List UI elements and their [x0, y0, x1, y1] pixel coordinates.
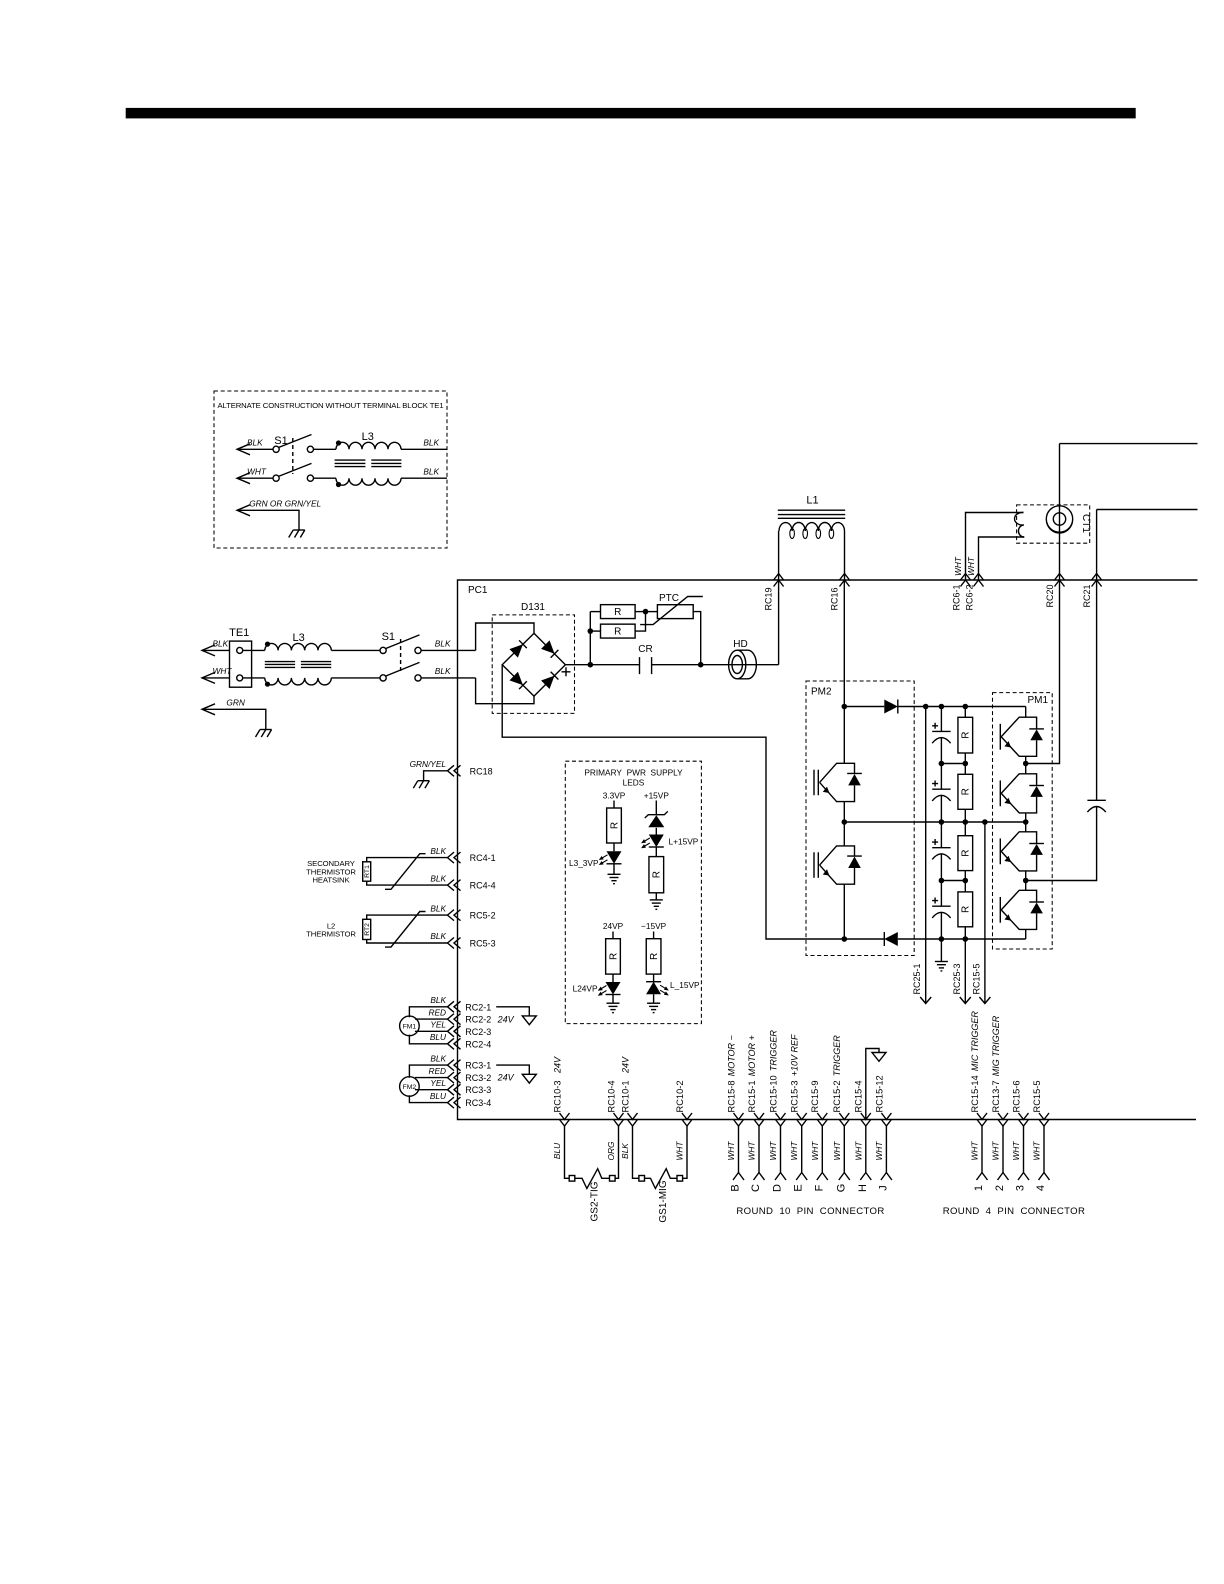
svg-text:ALTERNATE CONSTRUCTION WITHOUT: ALTERNATE CONSTRUCTION WITHOUT TERMINAL …	[217, 401, 443, 410]
LED L+15VP	[655, 828, 657, 835]
svg-text:RC2-2: RC2-2	[465, 1015, 491, 1025]
wire RC3-1	[409, 1065, 447, 1078]
zener diode (+15VP)	[655, 801, 657, 815]
pin J of 10-pin connector	[881, 1173, 892, 1181]
svg-text:WHT: WHT	[675, 1141, 685, 1161]
node PM2 bottom	[842, 936, 848, 942]
thermistor diagonal RT1	[385, 854, 426, 890]
svg-text:WHT: WHT	[966, 556, 976, 576]
connector pin RC10-4	[614, 1113, 624, 1126]
svg-text:YEL: YEL	[430, 1078, 446, 1088]
svg-text:WHT: WHT	[810, 1141, 820, 1161]
svg-text:L_15VP: L_15VP	[670, 980, 700, 990]
node PM1 Q3/Q4	[1023, 878, 1029, 884]
thermistor diagonal RT2	[385, 912, 426, 948]
resistor R lower	[590, 630, 600, 632]
node cap mid	[939, 819, 945, 825]
bridge rectifier D131 dashed box	[492, 615, 574, 714]
svg-text:RC4-4: RC4-4	[470, 881, 496, 891]
wire WHT secondary 1	[966, 513, 1024, 581]
wire L3 to S1 bottom	[331, 677, 380, 679]
svg-text:WHT: WHT	[874, 1141, 884, 1161]
LED L3_3VP	[607, 851, 622, 864]
svg-text:THERMISTOR: THERMISTOR	[306, 930, 356, 939]
svg-text:WHT: WHT	[768, 1141, 778, 1161]
svg-text:RC2-3: RC2-3	[465, 1027, 491, 1037]
second output line	[1097, 509, 1198, 511]
svg-text:RC3-2: RC3-2	[465, 1073, 491, 1083]
svg-text:GS1-MIG: GS1-MIG	[658, 1180, 669, 1222]
svg-text:R: R	[608, 953, 619, 960]
svg-text:RED: RED	[428, 1066, 446, 1076]
connector pin RC10-3	[560, 1113, 570, 1126]
capacitor C3	[940, 822, 942, 848]
pin E of 10-pin connector	[796, 1173, 807, 1181]
svg-text:R: R	[961, 732, 972, 739]
svg-text:R: R	[652, 871, 663, 878]
wire WHT to pin E	[801, 1126, 803, 1173]
svg-text:L3: L3	[362, 431, 374, 443]
svg-text:24V: 24V	[552, 1056, 562, 1074]
svg-text:RC15-4: RC15-4	[854, 1080, 864, 1112]
svg-text:TRIGGER: TRIGGER	[768, 1030, 778, 1072]
wire GRN with chassis ground	[202, 704, 215, 715]
svg-text:L1: L1	[806, 495, 818, 507]
earth ground (3.3VP)	[613, 864, 615, 875]
svg-text:RC3-3: RC3-3	[465, 1085, 491, 1095]
polarity dot L3 top	[265, 642, 270, 647]
svg-text:4: 4	[1035, 1185, 1047, 1191]
wire WHT secondary 2	[979, 537, 1025, 580]
wire WHT to pin D	[780, 1126, 782, 1173]
resistor R (-15VP)	[653, 932, 655, 939]
alternate construction dashed enclosure	[214, 391, 447, 548]
svg-text:MOTOR −: MOTOR −	[726, 1035, 736, 1076]
resistor bank R1	[964, 707, 966, 718]
TE1 terminal 2	[237, 675, 243, 681]
connector pin RC15-1	[754, 1113, 764, 1126]
fan motor FM1	[400, 1016, 420, 1036]
bridge diode lower-left	[509, 672, 522, 685]
24V supply triangle (FM1)	[496, 1007, 529, 1016]
wire WHT to pin F	[821, 1126, 823, 1173]
svg-text:WHT: WHT	[726, 1141, 736, 1161]
svg-text:LEDS: LEDS	[623, 778, 645, 788]
top output line	[1060, 443, 1198, 445]
svg-text:24V: 24V	[497, 1073, 515, 1083]
svg-text:24V: 24V	[620, 1056, 630, 1074]
svg-text:WHT: WHT	[213, 666, 233, 676]
switch GS2-TIG	[569, 1176, 575, 1182]
svg-text:RC25-1: RC25-1	[912, 963, 922, 994]
svg-text:WHT: WHT	[953, 556, 963, 576]
connector pin RC15-2	[839, 1113, 849, 1126]
svg-text:RC25-3: RC25-3	[952, 963, 962, 994]
svg-text:BLK: BLK	[423, 438, 439, 448]
24V supply triangle (FM2)	[496, 1065, 529, 1074]
svg-text:WHT: WHT	[747, 1141, 757, 1161]
node res mid	[963, 819, 969, 825]
svg-text:RC4-1: RC4-1	[470, 853, 496, 863]
wire RC2-4	[409, 1035, 447, 1044]
wire RC25-3	[964, 939, 966, 1004]
connector pin RC21	[1092, 574, 1102, 587]
bridge diamond	[502, 633, 565, 696]
svg-text:RC15-2: RC15-2	[832, 1080, 842, 1112]
svg-text:RC2-1: RC2-1	[465, 1002, 491, 1012]
connector pin RC15-8	[734, 1113, 744, 1126]
svg-text:RC5-3: RC5-3	[470, 939, 496, 949]
wire RC4-4	[367, 881, 448, 885]
svg-text:RC10-2: RC10-2	[675, 1080, 685, 1112]
svg-text:RC21: RC21	[1082, 584, 1092, 607]
svg-text:ORG: ORG	[606, 1141, 616, 1160]
PC1 board border	[458, 580, 1198, 1120]
svg-text:WHT: WHT	[247, 467, 267, 477]
svg-text:RC19: RC19	[764, 587, 774, 610]
svg-text:WHT: WHT	[789, 1141, 799, 1161]
svg-text:PM1: PM1	[1027, 695, 1048, 706]
wire RC3-4	[409, 1095, 447, 1102]
wire WHT to pin J	[885, 1126, 887, 1173]
svg-text:RC3-1: RC3-1	[465, 1061, 491, 1071]
svg-text:RC15-1: RC15-1	[747, 1080, 757, 1112]
node snubber right	[643, 609, 649, 615]
svg-text:D131: D131	[521, 602, 545, 613]
svg-text:HD: HD	[733, 639, 747, 650]
connector pin RC16	[840, 574, 850, 587]
svg-text:FM1: FM1	[403, 1023, 417, 1030]
IGBT PM1 Q3	[1025, 822, 1027, 832]
CT1 secondary winding	[1015, 512, 1025, 537]
node PM2 mid	[842, 819, 848, 825]
svg-text:BLK: BLK	[620, 1143, 630, 1159]
svg-text:R: R	[609, 822, 620, 829]
svg-text:WHT: WHT	[1011, 1141, 1021, 1161]
connector pin RC15-12	[881, 1113, 891, 1126]
wire L3 to S1 top	[331, 649, 380, 651]
svg-text:RT2: RT2	[364, 923, 371, 936]
svg-text:24VP: 24VP	[603, 921, 624, 931]
wire PM1 top lead	[1025, 707, 1027, 718]
svg-text:RC15-10: RC15-10	[768, 1075, 778, 1112]
svg-text:PC1: PC1	[468, 585, 488, 596]
wire RC5-3	[367, 940, 448, 944]
svg-text:L24VP: L24VP	[573, 984, 598, 994]
capacitor C4	[940, 881, 942, 907]
pin G of 10-pin connector	[839, 1173, 850, 1181]
svg-text:+10V REF: +10V REF	[790, 1034, 800, 1076]
mid rail PM2 to PM1	[844, 821, 1025, 823]
svg-text:WHT: WHT	[832, 1141, 842, 1161]
svg-text:24V: 24V	[497, 1014, 515, 1024]
chassis ground (alt)	[293, 529, 305, 531]
svg-text:RC5-2: RC5-2	[470, 911, 496, 921]
bridge diode upper-right	[541, 640, 554, 653]
svg-text:WHT: WHT	[991, 1141, 1001, 1161]
IGBT module PM1 dashed box	[993, 693, 1053, 949]
svg-text:R: R	[961, 850, 972, 857]
pin 2 of 4-pin connector	[998, 1173, 1009, 1181]
svg-text:RC15-8: RC15-8	[726, 1080, 736, 1112]
svg-text:MIC TRIGGER: MIC TRIGGER	[970, 1011, 980, 1071]
node cap n1	[939, 761, 945, 767]
pin H of 10-pin connector	[860, 1173, 871, 1181]
svg-text:RC15-5: RC15-5	[1032, 1080, 1042, 1112]
wire RC16 down to PM2	[843, 580, 845, 707]
wire WHT to pin B	[738, 1126, 740, 1173]
wire GRN OR GRN/YEL (alt)	[237, 505, 250, 516]
wire BLK output bottom (alt)	[401, 477, 447, 479]
connector pin RC15-4	[861, 1113, 871, 1126]
link n1	[941, 763, 965, 765]
earth ground (+15VP)	[650, 899, 663, 901]
LED L24VP	[606, 982, 621, 995]
svg-text:BLK: BLK	[213, 639, 229, 649]
node res bottom	[963, 936, 969, 942]
wire RC25-1	[925, 707, 927, 1004]
earth ground cap bank	[940, 939, 942, 962]
wire AC bottom into bridge	[476, 678, 534, 704]
svg-text:RC13-7: RC13-7	[991, 1080, 1001, 1112]
pin 4 of 4-pin connector	[1039, 1173, 1050, 1181]
svg-text:RC15-5: RC15-5	[971, 963, 981, 994]
svg-text:BLK: BLK	[423, 467, 439, 477]
svg-text:GRN: GRN	[226, 698, 244, 708]
switch GS1-MIG	[639, 1176, 645, 1182]
wire BLU to GS2-TIG	[565, 1126, 570, 1178]
earth ground (24VP)	[612, 995, 614, 1004]
svg-text:MOTOR +: MOTOR +	[747, 1035, 757, 1076]
svg-text:WHT: WHT	[1032, 1141, 1042, 1161]
svg-text:PRIMARY PWR SUPPLY: PRIMARY PWR SUPPLY	[584, 768, 683, 778]
TE1 terminal 1	[237, 647, 243, 653]
svg-text:C: C	[750, 1184, 762, 1192]
pin 3 of 4-pin connector	[1018, 1173, 1029, 1181]
plus sign at bridge output	[562, 667, 571, 676]
svg-text:BLU: BLU	[430, 1091, 447, 1101]
wire RC20 to PM1 node	[1026, 580, 1060, 764]
wire BLK input	[202, 645, 215, 656]
svg-text:HEATSINK: HEATSINK	[312, 876, 350, 885]
wire WHT to pin C	[758, 1126, 760, 1173]
wire node to HD and up to RC19	[701, 664, 779, 666]
svg-text:1: 1	[973, 1185, 985, 1191]
wire BLK output top (alt)	[401, 448, 447, 450]
svg-text:F: F	[813, 1184, 825, 1191]
svg-text:G: G	[835, 1184, 847, 1193]
node RC25-1 tap	[923, 704, 929, 710]
wire WHT to pin 2	[1002, 1126, 1004, 1173]
node PM1 Q1/Q2	[1023, 761, 1029, 767]
svg-text:MIG TRIGGER: MIG TRIGGER	[991, 1015, 1001, 1076]
wire RC4-1	[367, 858, 448, 862]
wire RC2-2	[415, 1018, 448, 1020]
svg-text:R: R	[614, 627, 621, 638]
svg-text:D: D	[772, 1184, 784, 1192]
wire RC21 to PM1 node	[1026, 807, 1097, 881]
wire BLK S1 to PC1 top	[421, 649, 476, 651]
svg-text:RC10-4: RC10-4	[606, 1080, 616, 1112]
svg-text:R: R	[961, 788, 972, 795]
svg-text:CR: CR	[638, 644, 652, 655]
resistor bank R3	[964, 822, 966, 836]
wire TE1 to L3 top	[243, 649, 265, 651]
svg-text:R: R	[614, 607, 621, 618]
pin B of 10-pin connector	[733, 1173, 744, 1181]
wire RC2-3	[415, 1030, 448, 1032]
bridge diode lower-right	[541, 676, 554, 689]
svg-text:BLK: BLK	[430, 903, 446, 913]
node res top	[963, 704, 969, 710]
svg-text:BLU: BLU	[552, 1142, 562, 1159]
wire top rail to cap bank	[898, 706, 1026, 708]
IGBT PM1 Q2	[1025, 764, 1027, 774]
wire bridge negative output	[502, 665, 844, 939]
svg-text:TE1: TE1	[229, 627, 249, 639]
svg-text:FM2: FM2	[403, 1084, 417, 1091]
svg-text:BLK: BLK	[430, 995, 446, 1005]
svg-text:GRN/YEL: GRN/YEL	[410, 759, 447, 769]
wire WHT to pin H	[865, 1126, 867, 1173]
svg-text:PM2: PM2	[811, 687, 832, 698]
wire to PM2 mid node	[843, 802, 845, 846]
node after CR	[698, 662, 704, 668]
svg-text:GS2-TIG: GS2-TIG	[590, 1181, 601, 1221]
pin 1 of 4-pin connector	[977, 1173, 988, 1181]
svg-text:RT1: RT1	[364, 865, 371, 878]
wire to snubber resistors	[589, 612, 591, 665]
svg-text:GRN OR GRN/YEL: GRN OR GRN/YEL	[249, 499, 321, 509]
resistor bank R2	[964, 764, 966, 775]
connector pin RC15-14	[977, 1113, 987, 1126]
connector pin RC20	[1055, 574, 1065, 587]
node PM1 mid	[1023, 819, 1029, 825]
capacitor C2	[940, 764, 942, 790]
link n3	[941, 880, 965, 882]
svg-text:BLK: BLK	[430, 1053, 446, 1063]
polarity dot top (alt)	[336, 440, 341, 445]
capacitor C1	[940, 707, 942, 732]
svg-text:BLK: BLK	[430, 873, 446, 883]
svg-text:R: R	[961, 906, 972, 913]
chassis ground (GRN)	[260, 729, 272, 731]
svg-text:J: J	[877, 1185, 889, 1191]
connector pin RC18 with chassis ground	[448, 765, 461, 776]
svg-text:RED: RED	[428, 1007, 446, 1017]
resistor R (24VP)	[612, 932, 614, 939]
svg-text:RC15-12: RC15-12	[874, 1075, 884, 1112]
diode PM2 bottom (points left)	[844, 938, 884, 940]
svg-text:BLK: BLK	[430, 846, 446, 856]
svg-text:RC15-9: RC15-9	[810, 1080, 820, 1112]
wire Q1 to node	[1025, 756, 1027, 763]
wire WHT to pin G	[843, 1126, 845, 1173]
connector pin RC13-7	[998, 1113, 1008, 1126]
wire AC top into bridge	[476, 623, 534, 650]
wire bridge positive output	[565, 664, 639, 666]
connector pin RC6-2	[974, 574, 984, 587]
svg-text:RC10-3: RC10-3	[552, 1080, 562, 1112]
svg-text:BLK: BLK	[247, 438, 263, 448]
connector pin RC10-1	[628, 1113, 638, 1126]
wire TE1 to L3 bottom	[243, 677, 265, 679]
earth ground (-15VP)	[653, 994, 655, 1003]
wire RC2-1	[409, 1007, 447, 1017]
svg-text:RC15-14: RC15-14	[970, 1075, 980, 1112]
wire PTC to output node	[693, 612, 701, 665]
connector pin RC15-10	[776, 1113, 786, 1126]
connector pin RC15-6	[1019, 1113, 1029, 1126]
svg-text:−15VP: −15VP	[641, 921, 667, 931]
svg-text:BLK: BLK	[435, 639, 451, 649]
wire WHT to pin 4	[1043, 1126, 1045, 1173]
svg-text:RC10-1: RC10-1	[620, 1080, 630, 1112]
node cap n3	[939, 878, 945, 884]
svg-text:L3_3VP: L3_3VP	[569, 858, 599, 868]
core lines L3	[265, 661, 295, 663]
diode PM2 top (points right)	[884, 700, 898, 714]
IGBT PM1 Q4	[1025, 881, 1027, 891]
connector pin RC6-1	[961, 574, 971, 587]
svg-text:E: E	[793, 1184, 805, 1191]
svg-text:RC18: RC18	[470, 766, 493, 776]
IGBT module PM2 dashed box	[806, 681, 914, 956]
wire BLK to GS1-MIG	[633, 1126, 639, 1178]
wire WHT input	[202, 672, 215, 683]
wire RC3-2	[415, 1077, 448, 1079]
capacitor on RC21 line	[1096, 580, 1098, 800]
connector pin RC15-3	[797, 1113, 807, 1126]
wire BLK input (alt)	[237, 444, 250, 455]
svg-text:TRIGGER: TRIGGER	[832, 1035, 842, 1077]
svg-text:WHT: WHT	[970, 1141, 980, 1161]
svg-text:3.3VP: 3.3VP	[603, 790, 626, 800]
bridge diode upper-left	[509, 644, 522, 657]
core lines (alt L3)	[335, 459, 366, 461]
node positive output	[588, 662, 594, 668]
connector pin RC15-5	[1039, 1113, 1049, 1126]
node cap bottom	[939, 936, 945, 942]
connector pin RC15-9	[817, 1113, 827, 1126]
resistor R upper	[590, 611, 600, 613]
wire WHT input (alt)	[237, 473, 250, 484]
svg-text:RC2-4: RC2-4	[465, 1039, 491, 1049]
svg-text:ROUND 4 PIN CONNECTOR: ROUND 4 PIN CONNECTOR	[943, 1206, 1086, 1217]
svg-text:S1: S1	[382, 631, 395, 643]
resistor R (3.3VP)	[613, 801, 615, 809]
polarity dot L3 bottom	[265, 682, 270, 687]
wire WHT to pin 1	[981, 1126, 983, 1173]
24V supply triangle (RC15-4)	[866, 1049, 879, 1120]
wire WHT to pin 3	[1023, 1126, 1025, 1173]
svg-text:BLU: BLU	[430, 1032, 447, 1042]
polarity dot bottom (alt)	[336, 482, 341, 487]
wire ORG to GS2-TIG	[615, 1126, 619, 1178]
pin D of 10-pin connector	[775, 1173, 786, 1181]
wire RC21 vertical	[1096, 510, 1098, 581]
wire BLK S1 to PC1 bottom	[421, 677, 476, 679]
node cap top	[939, 704, 945, 710]
svg-text:RC6-2: RC6-2	[965, 584, 975, 610]
resistor R (+15VP)	[655, 847, 657, 857]
svg-text:WHT: WHT	[853, 1141, 863, 1161]
node RC15-5 tap	[982, 819, 988, 825]
svg-text:+15VP: +15VP	[644, 790, 670, 800]
svg-text:ROUND 10 PIN CONNECTOR: ROUND 10 PIN CONNECTOR	[736, 1206, 884, 1217]
svg-text:BLK: BLK	[435, 666, 451, 676]
wire RC5-2	[367, 915, 448, 919]
